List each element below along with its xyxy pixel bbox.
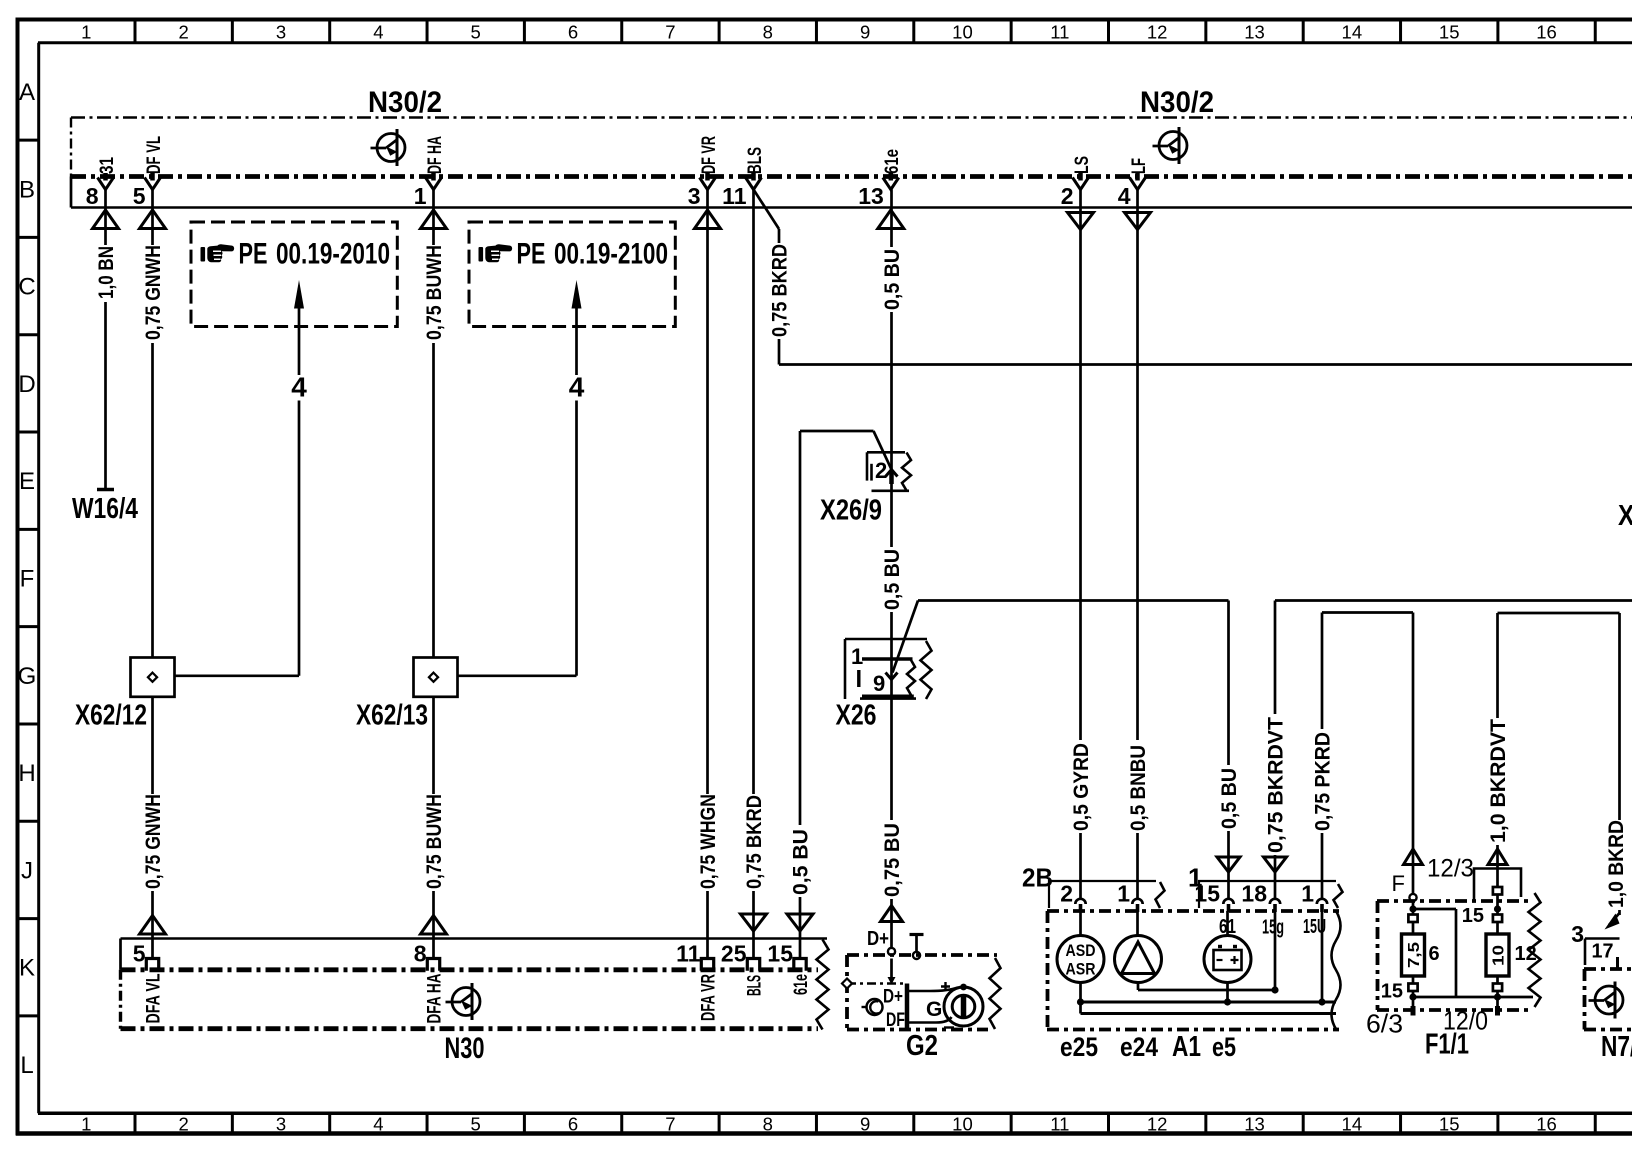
svg-text:6/3: 6/3 <box>1366 1009 1403 1039</box>
svg-text:11: 11 <box>676 941 701 967</box>
svg-text:14: 14 <box>1342 1114 1363 1135</box>
svg-text:5: 5 <box>133 183 146 209</box>
svg-text:00.19-2100: 00.19-2100 <box>554 238 668 271</box>
svg-text:J: J <box>21 857 33 884</box>
svg-text:4: 4 <box>569 372 585 403</box>
svg-text:15g: 15g <box>1262 917 1284 939</box>
svg-text:ASD: ASD <box>1066 942 1096 960</box>
svg-text:11: 11 <box>1050 1114 1069 1135</box>
svg-text:4: 4 <box>1118 183 1131 209</box>
svg-text:16: 16 <box>1536 22 1557 43</box>
svg-text:1: 1 <box>81 22 91 43</box>
svg-text:1,0 BKRD: 1,0 BKRD <box>1605 820 1628 908</box>
svg-text:7: 7 <box>665 22 675 43</box>
svg-text:0,5 BU: 0,5 BU <box>789 829 812 895</box>
svg-text:0,75 BUWH: 0,75 BUWH <box>423 245 446 340</box>
svg-text:8: 8 <box>763 22 773 43</box>
svg-text:3: 3 <box>688 183 701 209</box>
svg-text:11: 11 <box>1050 22 1069 43</box>
svg-text:N30/2: N30/2 <box>368 86 442 119</box>
svg-text:18: 18 <box>1241 881 1267 907</box>
svg-text:2: 2 <box>179 1114 189 1135</box>
svg-text:3: 3 <box>276 22 286 43</box>
svg-text:00.19-2010: 00.19-2010 <box>276 238 390 271</box>
svg-text:2: 2 <box>875 458 887 483</box>
svg-text:7: 7 <box>665 1114 675 1135</box>
svg-text:61e: 61e <box>791 974 812 995</box>
svg-text:G2: G2 <box>906 1030 938 1062</box>
svg-text:15: 15 <box>1381 981 1403 1003</box>
svg-text:0,75 BKRD: 0,75 BKRD <box>743 795 766 889</box>
svg-text:12: 12 <box>1147 1114 1168 1135</box>
svg-text:15: 15 <box>767 941 793 967</box>
svg-text:6: 6 <box>1429 943 1440 965</box>
svg-text:15: 15 <box>1439 22 1460 43</box>
svg-text:61e: 61e <box>882 149 903 174</box>
svg-text:C: C <box>18 274 35 301</box>
svg-text:0,5 BU: 0,5 BU <box>1218 768 1241 829</box>
svg-text:1: 1 <box>1301 881 1314 907</box>
svg-text:ASR: ASR <box>1066 961 1096 979</box>
svg-text:8: 8 <box>763 1114 773 1135</box>
svg-text:DFA VL: DFA VL <box>144 973 165 1023</box>
svg-text:0,5 BU: 0,5 BU <box>881 549 904 610</box>
svg-text:1,0 BKRDVT: 1,0 BKRDVT <box>1487 719 1510 843</box>
svg-text:G: G <box>18 663 37 690</box>
svg-text:12/3: 12/3 <box>1427 855 1474 883</box>
svg-text:W16/4: W16/4 <box>72 493 138 525</box>
svg-text:25: 25 <box>721 941 747 967</box>
svg-text:DF VR: DF VR <box>699 136 720 174</box>
svg-text:9: 9 <box>873 671 885 696</box>
svg-text:1: 1 <box>851 644 863 669</box>
svg-text:X62/13: X62/13 <box>356 700 428 732</box>
svg-text:0,75 PKRD: 0,75 PKRD <box>1311 732 1334 831</box>
svg-text:N30: N30 <box>445 1032 485 1065</box>
svg-text:PE: PE <box>239 238 268 271</box>
svg-text:X1: X1 <box>1618 500 1632 532</box>
svg-text:6: 6 <box>568 1114 578 1135</box>
svg-text:5: 5 <box>133 941 146 967</box>
svg-text:F: F <box>20 566 35 593</box>
svg-text:9: 9 <box>860 1114 870 1135</box>
svg-text:3: 3 <box>276 1114 286 1135</box>
svg-text:1: 1 <box>414 183 427 209</box>
svg-text:BLS: BLS <box>745 975 766 996</box>
svg-text:LS: LS <box>1072 156 1093 174</box>
svg-text:0,75 GNWH: 0,75 GNWH <box>142 794 165 889</box>
svg-text:3: 3 <box>1571 921 1584 947</box>
svg-text:15: 15 <box>1462 905 1484 927</box>
svg-text:12: 12 <box>1147 22 1168 43</box>
svg-text:D: D <box>18 371 35 398</box>
svg-text:4: 4 <box>373 1114 383 1135</box>
svg-text:1: 1 <box>1117 881 1130 907</box>
svg-text:8: 8 <box>86 183 99 209</box>
svg-text:5: 5 <box>471 22 481 43</box>
svg-text:12: 12 <box>1515 943 1537 965</box>
svg-text:0,75 BUWH: 0,75 BUWH <box>423 794 446 889</box>
svg-text:D+: D+ <box>883 987 903 1008</box>
svg-text:G: G <box>926 998 942 1021</box>
svg-text:X26: X26 <box>836 700 877 732</box>
svg-text:7,5: 7,5 <box>1406 942 1423 968</box>
svg-text:0,75 GNWH: 0,75 GNWH <box>142 245 165 340</box>
svg-text:2: 2 <box>1061 183 1074 209</box>
svg-text:0,75 WHGN: 0,75 WHGN <box>697 794 720 889</box>
svg-text:4: 4 <box>373 22 383 43</box>
svg-text:L: L <box>20 1052 33 1079</box>
svg-text:0,5 BNBU: 0,5 BNBU <box>1127 745 1150 831</box>
svg-text:2: 2 <box>179 22 189 43</box>
svg-text:DFA HA: DFA HA <box>425 973 446 1023</box>
svg-text:K: K <box>19 955 35 982</box>
svg-text:LF: LF <box>1129 158 1150 174</box>
svg-text:10: 10 <box>952 22 973 43</box>
svg-text:10: 10 <box>1491 945 1508 966</box>
svg-text:BLS: BLS <box>745 147 766 174</box>
svg-text:DF VL: DF VL <box>144 136 165 174</box>
svg-text:X62/12: X62/12 <box>75 700 147 732</box>
svg-text:B: B <box>19 176 35 203</box>
svg-text:DFA VR: DFA VR <box>699 974 720 1021</box>
svg-text:15: 15 <box>1194 881 1220 907</box>
svg-text:0,5 BU: 0,5 BU <box>881 249 904 310</box>
svg-text:15: 15 <box>1439 1114 1460 1135</box>
svg-text:17: 17 <box>1592 941 1614 963</box>
svg-text:DF HA: DF HA <box>425 136 446 174</box>
svg-text:F1/1: F1/1 <box>1425 1029 1469 1061</box>
svg-text:D+: D+ <box>867 928 889 950</box>
svg-text:A1: A1 <box>1172 1031 1201 1063</box>
svg-text:H: H <box>18 760 35 787</box>
svg-text:11: 11 <box>722 183 747 209</box>
svg-text:A: A <box>19 79 35 106</box>
svg-text:0,5 GYRD: 0,5 GYRD <box>1070 743 1093 831</box>
svg-text:0,75 BKRDVT: 0,75 BKRDVT <box>1264 717 1287 853</box>
svg-text:8: 8 <box>414 941 427 967</box>
svg-text:10: 10 <box>952 1114 973 1135</box>
svg-text:N7/1: N7/1 <box>1601 1031 1632 1063</box>
svg-text:13: 13 <box>858 183 884 209</box>
svg-text:31: 31 <box>97 157 118 174</box>
svg-text:0,75 BKRD: 0,75 BKRD <box>768 244 791 337</box>
svg-text:N30/2: N30/2 <box>1140 86 1214 119</box>
svg-text:F: F <box>1392 871 1405 896</box>
svg-text:e5: e5 <box>1212 1032 1236 1062</box>
svg-text:2: 2 <box>1060 881 1073 907</box>
svg-text:E: E <box>19 468 35 495</box>
svg-text:PE: PE <box>517 238 546 271</box>
svg-text:1: 1 <box>81 1114 91 1135</box>
svg-text:4: 4 <box>291 372 307 403</box>
svg-text:5: 5 <box>471 1114 481 1135</box>
svg-text:0,75 BU: 0,75 BU <box>881 823 904 897</box>
svg-text:16: 16 <box>1536 1114 1557 1135</box>
svg-text:e25: e25 <box>1060 1032 1098 1062</box>
svg-text:1,0 BN: 1,0 BN <box>95 246 118 299</box>
svg-text:DF: DF <box>886 1010 905 1031</box>
svg-text:13: 13 <box>1244 1114 1265 1135</box>
svg-text:14: 14 <box>1342 22 1363 43</box>
svg-text:13: 13 <box>1244 22 1265 43</box>
svg-text:e24: e24 <box>1120 1032 1158 1062</box>
svg-text:9: 9 <box>860 22 870 43</box>
svg-text:6: 6 <box>568 22 578 43</box>
svg-text:X26/9: X26/9 <box>820 495 882 527</box>
